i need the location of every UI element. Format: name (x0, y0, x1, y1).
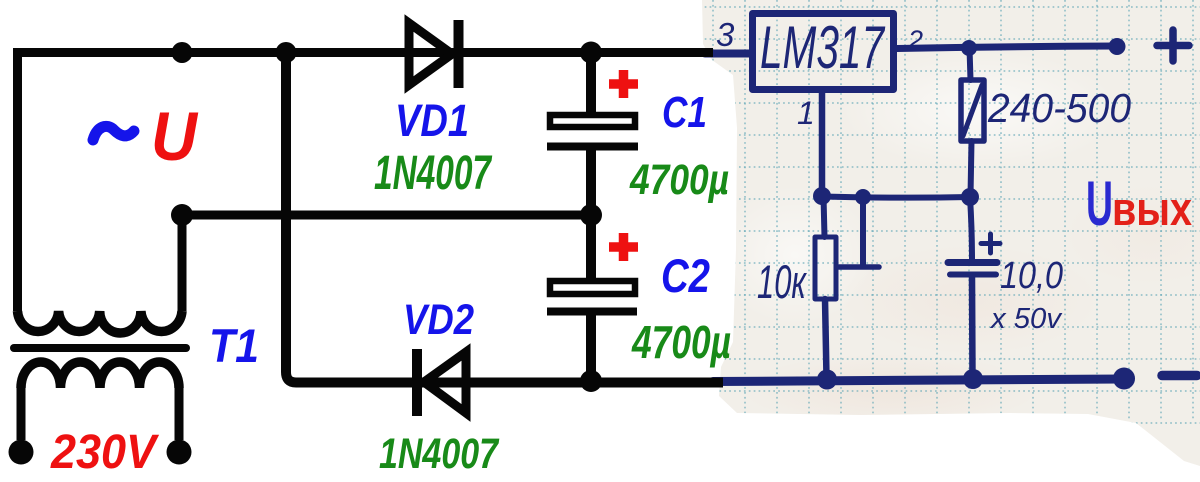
svg-text:x 50v: x 50v (989, 303, 1063, 335)
svg-text:1N4007: 1N4007 (379, 430, 500, 478)
svg-text:240-500: 240-500 (987, 85, 1131, 131)
svg-text:10к: 10к (757, 255, 807, 308)
svg-text:C1: C1 (662, 88, 707, 137)
svg-text:вых: вых (1112, 182, 1192, 235)
svg-text:VD2: VD2 (403, 296, 474, 344)
svg-text:U: U (151, 98, 199, 175)
svg-text:1N4007: 1N4007 (374, 147, 493, 200)
svg-text:VD1: VD1 (395, 95, 469, 146)
svg-text:U: U (1086, 169, 1113, 239)
svg-text:C2: C2 (661, 249, 710, 302)
svg-text:3: 3 (716, 16, 735, 53)
svg-text:LM317: LM317 (760, 14, 886, 81)
svg-text:T1: T1 (209, 319, 259, 372)
svg-text:4700µ: 4700µ (629, 156, 729, 204)
svg-text:10,0: 10,0 (1000, 255, 1063, 297)
svg-text:2: 2 (907, 25, 923, 55)
svg-text:4700µ: 4700µ (631, 316, 731, 368)
svg-text:1: 1 (797, 95, 815, 131)
svg-text:230V: 230V (50, 426, 160, 479)
